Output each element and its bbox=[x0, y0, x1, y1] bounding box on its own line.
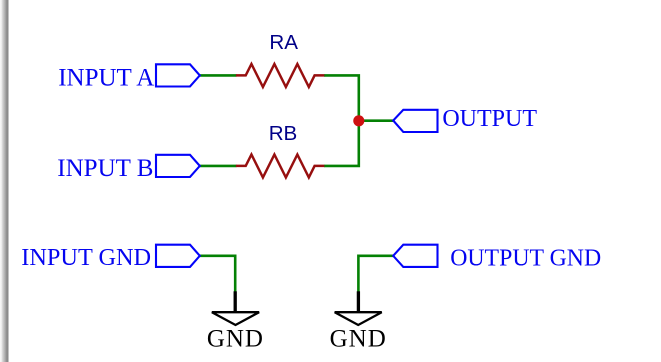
svg-text:GND: GND bbox=[330, 326, 387, 353]
svg-text:INPUT B: INPUT B bbox=[57, 155, 153, 182]
svg-text:OUTPUT GND: OUTPUT GND bbox=[450, 246, 601, 272]
svg-text:RB: RB bbox=[269, 122, 298, 145]
svg-text:INPUT A: INPUT A bbox=[58, 64, 154, 91]
svg-text:INPUT GND: INPUT GND bbox=[21, 244, 151, 271]
svg-text:OUTPUT: OUTPUT bbox=[442, 106, 537, 132]
svg-text:GND: GND bbox=[207, 326, 264, 353]
svg-text:RA: RA bbox=[269, 31, 298, 54]
